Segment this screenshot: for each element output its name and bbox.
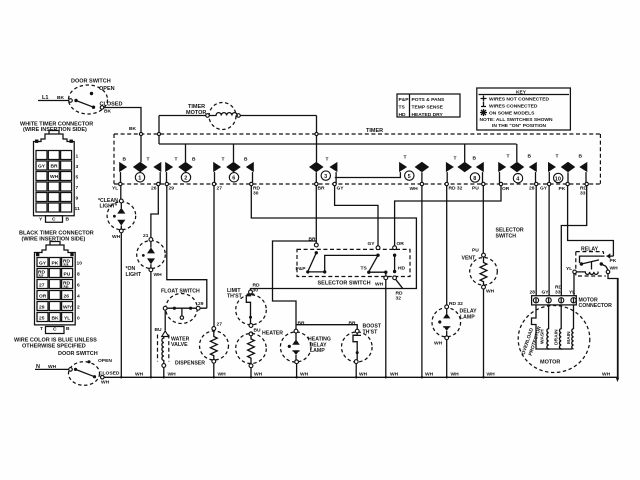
svg-text:6: 6: [232, 176, 235, 182]
svg-text:C: C: [52, 217, 56, 223]
svg-text:MAIN: MAIN: [566, 331, 572, 344]
svg-text:WH: WH: [168, 372, 177, 378]
svg-text:RD 32: RD 32: [449, 186, 463, 192]
svg-text:T: T: [40, 326, 43, 332]
wire BR branch to lamps: [273, 241, 317, 329]
svg-text:CLOSED: CLOSED: [99, 371, 120, 377]
timer cam contact 4: [498, 153, 537, 184]
svg-text:9: 9: [76, 196, 79, 202]
wire GY to motor connector: [548, 186, 550, 296]
wire heater to bus: [250, 368, 252, 377]
selector switch box: [297, 249, 410, 286]
svg-text:3: 3: [324, 174, 327, 180]
selector TS switch: [361, 241, 388, 274]
timer cam contact 5: [335, 154, 429, 184]
svg-text:DOOR SWITCH: DOOR SWITCH: [58, 351, 98, 357]
svg-text:WH: WH: [602, 372, 611, 378]
svg-text:29: 29: [198, 301, 204, 307]
svg-text:BU: BU: [155, 327, 163, 333]
wire timer feed bus y144: [159, 143, 517, 145]
svg-text:3: 3: [76, 164, 79, 170]
svg-text:B: B: [473, 155, 477, 161]
svg-text:B: B: [66, 217, 70, 223]
float switch FS: [161, 289, 204, 324]
svg-text:BR: BR: [309, 237, 317, 243]
svg-text:29: 29: [169, 186, 175, 192]
svg-text:PU: PU: [64, 272, 71, 278]
svg-text:P&P: P&P: [296, 266, 307, 272]
svg-text:BR: BR: [349, 321, 357, 327]
wire 26 to on light: [151, 186, 158, 237]
wire timer motor left drop: [158, 116, 160, 145]
door switch DS2 (bottom): [58, 351, 120, 386]
svg-text:TH'ST: TH'ST: [227, 294, 243, 300]
wire TS contact WH down to bus: [385, 272, 387, 276]
wire clean light to bus: [120, 233, 122, 377]
svg-text:SELECTOR SWITCH: SELECTOR SWITCH: [318, 281, 371, 287]
svg-text:BK: BK: [57, 95, 65, 101]
svg-text:WH: WH: [487, 372, 496, 378]
wire BK door switch to timer contact 1: [104, 108, 141, 163]
timer cam contact 2: [165, 156, 196, 184]
svg-text:CLOSED: CLOSED: [100, 102, 123, 108]
on light lamp: [126, 238, 166, 278]
svg-text:WIRES NOT CONNECTED: WIRES NOT CONNECTED: [489, 97, 550, 103]
timer cam contact 8: [446, 155, 484, 184]
relay: [566, 247, 618, 277]
svg-text:0: 0: [77, 316, 80, 322]
limit thermostat: [227, 283, 266, 336]
svg-text:27: 27: [39, 283, 45, 289]
bus end arrow: [616, 378, 620, 383]
wire P&P contact to TS pivot: [325, 255, 378, 272]
wire float to water valve BU: [164, 310, 166, 330]
wire delay lamp to bus: [446, 340, 448, 377]
svg-text:OR: OR: [39, 294, 47, 300]
svg-text:WH: WH: [375, 282, 384, 288]
svg-text:OR: OR: [502, 186, 510, 192]
wire L1 BK: [38, 100, 69, 102]
svg-text:30: 30: [253, 191, 259, 197]
svg-text:2: 2: [184, 176, 187, 182]
svg-text:5: 5: [76, 175, 79, 181]
svg-text:PK: PK: [52, 261, 59, 267]
clean light lamp: [98, 198, 136, 240]
svg-text:WH: WH: [135, 372, 144, 378]
wire GY to selector TS: [335, 186, 378, 246]
svg-text:2: 2: [77, 305, 80, 311]
motor: [518, 305, 590, 373]
timer cam contact 10: [548, 153, 587, 184]
svg-text:GY: GY: [337, 186, 345, 192]
wire drop to contact 4: [516, 144, 518, 162]
timer dashed box: [114, 128, 600, 184]
svg-text:T: T: [175, 156, 178, 162]
svg-text:5: 5: [408, 174, 411, 180]
key box: [477, 88, 571, 130]
wire BR branch to boost thst: [296, 325, 357, 330]
svg-text:HD: HD: [398, 266, 406, 272]
svg-text:WH: WH: [434, 341, 443, 347]
svg-text:DISPENSER: DISPENSER: [175, 361, 205, 367]
svg-text:TIMER: TIMER: [366, 128, 383, 134]
svg-text:WH: WH: [410, 186, 419, 192]
wire dispenser to bus: [213, 363, 215, 377]
svg-text:LAMP: LAMP: [310, 348, 325, 354]
wire boost thst to bus: [355, 364, 357, 378]
svg-text:B: B: [244, 156, 248, 162]
svg-text:LIGHT*: LIGHT*: [100, 203, 119, 209]
wire on light to bus: [150, 272, 152, 377]
svg-text:LAMP: LAMP: [460, 314, 475, 320]
svg-text:26: 26: [151, 186, 157, 192]
svg-text:POTS & PANS: POTS & PANS: [412, 97, 446, 103]
svg-text:BK: BK: [52, 316, 60, 322]
svg-text:WASH: WASH: [540, 329, 546, 344]
svg-text:IN THE "ON" POSITION: IN THE "ON" POSITION: [492, 123, 547, 129]
door switch DS1 (top): [69, 79, 123, 115]
svg-text:B: B: [123, 156, 127, 162]
wire heating delay lamp to bus: [296, 364, 298, 377]
timer cam contact 6: [213, 156, 254, 184]
svg-text:WH: WH: [154, 272, 163, 278]
dispenser: [175, 322, 229, 367]
svg-text:10: 10: [555, 176, 561, 182]
legend abbreviations box: [397, 94, 460, 118]
svg-text:BR: BR: [51, 164, 59, 170]
svg-text:BR: BR: [298, 321, 306, 327]
svg-text:WH: WH: [254, 372, 263, 378]
wire OR to selector HD: [395, 186, 501, 246]
svg-text:P&P: P&P: [399, 97, 410, 103]
wire N to door switch 2: [35, 368, 69, 370]
svg-text:DOOR SWITCH: DOOR SWITCH: [71, 79, 111, 85]
svg-text:YL: YL: [569, 290, 575, 296]
svg-text:NOTE: ALL SWITCHES SHOWN: NOTE: ALL SWITCHES SHOWN: [480, 117, 554, 123]
svg-text:6: 6: [77, 283, 80, 289]
wire water valve to bus: [163, 367, 165, 377]
water valve WV: [158, 331, 190, 367]
svg-text:BR: BR: [318, 186, 326, 192]
svg-text:27: 27: [217, 186, 223, 192]
wire YL relay to motor connector: [573, 274, 575, 296]
svg-text:8: 8: [77, 272, 80, 278]
svg-text:GY: GY: [39, 261, 47, 267]
svg-text:CONNECTOR: CONNECTOR: [579, 303, 613, 309]
svg-text:VALVE: VALVE: [171, 342, 188, 348]
motor connector: [530, 285, 613, 310]
svg-text:PU: PU: [472, 186, 479, 192]
svg-text:TEMP SENSE: TEMP SENSE: [412, 105, 444, 111]
svg-text:T: T: [404, 154, 407, 160]
svg-text:30: 30: [63, 285, 69, 291]
wire RD30 loop around selector: [251, 186, 417, 290]
svg-text:28: 28: [529, 186, 535, 192]
svg-text:OTHERWISE SPECIFIED: OTHERWISE SPECIFIED: [22, 344, 86, 350]
svg-text:T: T: [147, 156, 150, 162]
svg-text:PK: PK: [610, 258, 617, 264]
svg-text:33: 33: [580, 191, 586, 197]
bus junction dots: [120, 376, 485, 378]
svg-text:33: 33: [63, 263, 69, 269]
svg-text:25: 25: [39, 316, 45, 322]
timer cam contact 1: [119, 156, 161, 184]
wire 27 to dispenser: [213, 186, 215, 327]
svg-text:21: 21: [143, 233, 149, 239]
svg-text:T: T: [454, 155, 457, 161]
svg-text:SWITCH: SWITCH: [496, 233, 517, 239]
svg-text:1: 1: [138, 176, 141, 182]
wire drop to contact 8: [464, 144, 466, 162]
svg-text:TS: TS: [399, 105, 406, 111]
svg-text:26: 26: [64, 294, 70, 300]
svg-text:B: B: [579, 153, 583, 159]
delay lamp: [432, 301, 477, 347]
svg-text:T: T: [222, 156, 225, 162]
svg-text:GY: GY: [368, 241, 376, 247]
svg-text:RD 32: RD 32: [449, 301, 463, 307]
boost thermostat: [342, 321, 382, 364]
wire WH timer to bus: [421, 186, 423, 377]
svg-text:WH: WH: [300, 372, 309, 378]
svg-text:LIGHT: LIGHT: [126, 272, 142, 278]
svg-text:32: 32: [38, 274, 44, 280]
svg-text:27: 27: [217, 322, 223, 328]
wire RD32 timer to delay lamp: [446, 186, 448, 305]
svg-text:30: 30: [253, 288, 259, 294]
wire RD33 to motor connector: [561, 186, 586, 296]
svg-text:FLOAT SWITCH: FLOAT SWITCH: [161, 289, 200, 295]
svg-text:33: 33: [555, 290, 561, 296]
wire relay WH to right edge bus: [608, 274, 618, 378]
wire vent to bus: [483, 289, 485, 377]
svg-text:WH: WH: [359, 372, 368, 378]
heater: [236, 331, 283, 368]
svg-text:YL: YL: [112, 186, 118, 192]
timer cam contact 3: [309, 156, 337, 184]
timer bottom border terminals: [119, 182, 589, 185]
svg-text:PU: PU: [472, 248, 479, 254]
svg-text:C: C: [53, 327, 57, 333]
svg-text:OPEN: OPEN: [98, 358, 112, 364]
svg-text:11: 11: [75, 206, 80, 212]
svg-text:GY: GY: [540, 186, 548, 192]
svg-text:T: T: [507, 153, 510, 159]
black timer connector: [19, 231, 94, 334]
svg-text:WIRES CONNECTED: WIRES CONNECTED: [489, 104, 538, 110]
svg-text:WH: WH: [425, 372, 434, 378]
selector HD switch: [393, 241, 406, 302]
vent: [462, 248, 498, 295]
heating delay lamp: [280, 321, 331, 364]
wire BR to selector P&P: [315, 186, 317, 243]
svg-text:B: B: [66, 326, 70, 332]
svg-text:HD: HD: [399, 112, 407, 118]
svg-text:YL: YL: [64, 316, 70, 322]
svg-text:BK: BK: [104, 109, 112, 115]
svg-text:4: 4: [77, 294, 80, 300]
selector P&P switch: [296, 237, 327, 274]
svg-text:T: T: [326, 156, 329, 162]
wire PK to relay: [568, 186, 614, 256]
svg-text:ON SOME MODELS: ON SOME MODELS: [489, 111, 535, 117]
timer motor TM: [186, 103, 240, 130]
svg-text:WH: WH: [50, 174, 59, 180]
wire neutral bus: [104, 278, 617, 377]
svg-text:HEATED DRY: HEATED DRY: [412, 112, 444, 118]
bus WH labels: [135, 372, 611, 378]
svg-text:B: B: [528, 153, 532, 159]
svg-text:29: 29: [39, 305, 45, 311]
svg-text:WH: WH: [390, 372, 399, 378]
wire 29 to float switch: [167, 186, 207, 309]
svg-text:MOTOR: MOTOR: [540, 360, 560, 366]
svg-text:BU: BU: [254, 328, 262, 334]
svg-text:W/Y: W/Y: [63, 305, 73, 311]
svg-text:WH: WH: [101, 380, 110, 386]
svg-text:1: 1: [76, 154, 79, 160]
svg-text:8: 8: [473, 176, 476, 182]
svg-text:7: 7: [76, 185, 79, 191]
svg-text:28: 28: [530, 290, 536, 296]
svg-text:WH: WH: [610, 266, 619, 272]
svg-text:BK: BK: [129, 126, 137, 132]
wire timer motor right drop to contact 3: [316, 116, 318, 163]
wire YL to clean light: [120, 186, 122, 199]
wire PU to vent: [482, 186, 484, 254]
svg-text:OPEN: OPEN: [99, 86, 115, 92]
white timer connector: [20, 122, 93, 223]
svg-text:B: B: [192, 156, 196, 162]
svg-text:10: 10: [77, 261, 83, 267]
wire drop to contact 6: [233, 144, 235, 162]
svg-text:TS: TS: [361, 266, 368, 272]
wire timer motor line: [159, 115, 206, 117]
svg-text:WH: WH: [451, 372, 460, 378]
svg-text:OR: OR: [397, 241, 405, 247]
svg-text:32: 32: [396, 296, 402, 302]
svg-text:WH: WH: [486, 289, 495, 295]
svg-text:T: T: [556, 153, 559, 159]
wire drop to contact 2: [185, 144, 187, 162]
svg-text:YL: YL: [566, 266, 572, 272]
svg-text:GY: GY: [38, 164, 46, 170]
svg-text:WH: WH: [218, 372, 227, 378]
svg-text:HEATER: HEATER: [262, 331, 283, 337]
svg-text:PK: PK: [559, 186, 566, 192]
svg-text:WH: WH: [112, 234, 121, 240]
svg-text:GY: GY: [542, 290, 550, 296]
svg-text:DRAIN: DRAIN: [554, 329, 560, 345]
wire 28 to motor connector: [535, 186, 537, 296]
